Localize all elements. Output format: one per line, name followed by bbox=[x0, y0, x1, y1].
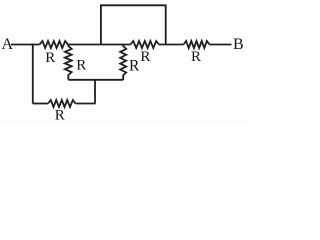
svg-text:A: A bbox=[2, 36, 14, 53]
svg-text:R: R bbox=[129, 58, 140, 75]
svg-text:R: R bbox=[191, 49, 201, 65]
svg-text:B: B bbox=[233, 36, 244, 53]
svg-text:R: R bbox=[55, 108, 65, 124]
svg-text:R: R bbox=[76, 58, 86, 74]
svg-text:R: R bbox=[140, 49, 150, 65]
svg-text:R: R bbox=[45, 50, 55, 66]
